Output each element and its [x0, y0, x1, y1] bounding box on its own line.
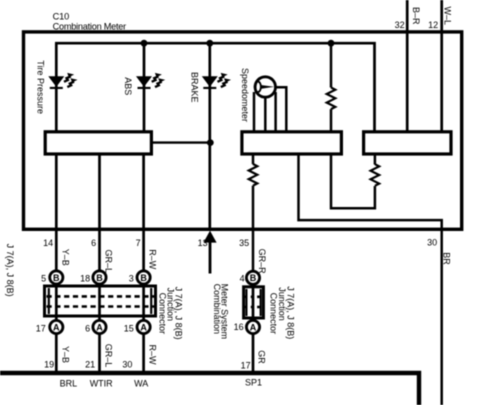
wire A6 to WTIR [98, 333, 101, 372]
connector end tick right [260, 289, 262, 316]
svg-text:21: 21 [85, 359, 95, 369]
svg-text:GR–L: GR–L [104, 344, 114, 368]
svg-text:Meter System: Meter System [220, 284, 230, 340]
svg-text:A: A [53, 322, 60, 332]
svg-text:J 7(A), J 8(B): J 7(A), J 8(B) [5, 244, 15, 297]
wire lamp module to pin 14 [55, 154, 58, 228]
connector bus bar dashed lower [245, 306, 264, 309]
svg-text:B: B [250, 273, 257, 283]
svg-text:17: 17 [36, 324, 46, 334]
wire pin 14 to junction connector [55, 228, 58, 271]
connector end tick left [48, 288, 50, 314]
wire lamp module to pin 7 [142, 154, 145, 228]
svg-text:3: 3 [129, 273, 134, 283]
svg-text:6: 6 [91, 238, 96, 248]
wire internal top feed bus [55, 43, 375, 131]
svg-text:Y–B: Y–B [60, 249, 70, 266]
meter lamp module box [45, 132, 151, 154]
svg-text:6: 6 [85, 324, 90, 334]
connector end tick right [150, 288, 152, 314]
junction connector J7(A) J8(B) left block [45, 286, 156, 316]
pin B5 terminal [50, 271, 63, 284]
svg-text:19: 19 [44, 359, 54, 369]
pin A16 terminal [246, 320, 259, 333]
speedometer module box [242, 132, 342, 154]
wire link speedo module to plate resistor [331, 155, 375, 209]
junction connector J7(A) J8(B) right block [244, 287, 264, 318]
resistor (circuit plate) [371, 164, 380, 186]
svg-text:7: 7 [136, 238, 141, 248]
svg-text:18: 18 [80, 273, 90, 283]
svg-text:B–R: B–R [411, 7, 421, 25]
svg-text:14: 14 [43, 238, 53, 248]
wire lamp module to brake branch [151, 141, 210, 143]
svg-text:BR: BR [442, 252, 452, 265]
connector bus bar dashed upper [47, 295, 155, 298]
svg-text:R–W: R–W [148, 249, 158, 270]
connector end tick left [245, 289, 247, 316]
svg-text:BRL: BRL [60, 378, 78, 388]
wire pin 12 (W-L) into meter [440, 0, 443, 132]
wire ABS lamp branch [143, 43, 146, 130]
pin B4 terminal [246, 271, 259, 284]
wire pin 32 (B-R) into meter [406, 0, 409, 132]
svg-text:32: 32 [395, 20, 405, 30]
svg-text:SP1: SP1 [245, 377, 262, 387]
wire pin 35 branch upper [252, 155, 255, 165]
svg-text:B: B [96, 273, 103, 283]
wire through connector pin14 [55, 284, 58, 320]
wire speedometer left lead [253, 92, 256, 133]
speedometer gauge [255, 77, 276, 97]
indicator lamp ABS [136, 73, 165, 89]
combination meter box C10 [24, 32, 462, 229]
resistor (pin 35 branch) [249, 164, 258, 186]
connector bus bar dashed upper [245, 295, 264, 298]
resistor (meter internal) [327, 88, 336, 110]
wire pin 35 branch lower [252, 186, 255, 271]
svg-text:16: 16 [234, 322, 244, 332]
svg-text:12: 12 [428, 20, 438, 30]
indicator lamp Tire Pressure [48, 73, 77, 89]
svg-text:Speedometer: Speedometer [240, 68, 250, 122]
svg-text:17: 17 [241, 361, 251, 371]
svg-text:GR–R: GR–R [257, 249, 267, 275]
wire pin 6 to junction connector [98, 228, 101, 271]
svg-text:35: 35 [239, 238, 249, 248]
wire speedo module to pin 30 [299, 155, 442, 405]
arrow to combination meter system [203, 231, 216, 243]
svg-text:A: A [96, 322, 103, 332]
wire A16 to SP1 [252, 333, 255, 372]
wire BRAKE lamp branch / pin 13 [208, 43, 211, 229]
svg-text:W–L: W–L [442, 7, 452, 26]
svg-text:WTIR: WTIR [90, 378, 113, 388]
wire plate resistor top lead [374, 155, 377, 165]
wire A15 to WA [142, 333, 145, 372]
svg-text:ABS: ABS [123, 77, 133, 95]
connector bus bar dashed lower [47, 305, 155, 308]
pin B18 terminal [93, 271, 106, 284]
svg-text:Connector: Connector [157, 293, 167, 335]
wire through connector pin35 [252, 284, 255, 321]
wire through connector pin7 [142, 284, 145, 320]
junction node brake branch [207, 139, 214, 146]
wire speedometer side stub [276, 87, 287, 133]
wire tire pressure lamp branch [55, 43, 58, 130]
svg-text:B: B [140, 273, 147, 283]
svg-text:GR: GR [256, 350, 266, 364]
pin A6 terminal [93, 320, 106, 333]
svg-text:B: B [53, 273, 60, 283]
svg-text:WA: WA [134, 378, 148, 388]
wire speedometer middle lead [264, 96, 267, 133]
junction node at ABS branch [141, 40, 148, 47]
svg-text:GR–L: GR–L [104, 250, 114, 274]
svg-text:C10: C10 [53, 11, 70, 21]
svg-text:5: 5 [41, 273, 46, 283]
wire A17 to BRL [55, 333, 58, 372]
pin B3 terminal [137, 271, 150, 284]
svg-text:30: 30 [427, 237, 437, 247]
svg-text:15: 15 [124, 324, 134, 334]
svg-text:4: 4 [240, 273, 245, 283]
svg-text:Connector: Connector [269, 293, 279, 335]
svg-text:BRAKE: BRAKE [189, 72, 199, 103]
pin A15 terminal [137, 320, 150, 333]
svg-text:Tire Pressure: Tire Pressure [35, 60, 45, 114]
svg-text:A: A [250, 322, 257, 332]
pin A17 terminal [50, 320, 63, 333]
wire resistor to speedo module [330, 109, 333, 133]
svg-text:Y–B: Y–B [60, 346, 70, 363]
wire speedometer right lead [274, 92, 277, 133]
svg-text:A: A [140, 322, 147, 332]
meter circuit plate box [364, 132, 451, 154]
wire lamp module to pin 6 [98, 154, 101, 228]
indicator lamp BRAKE [202, 73, 231, 89]
junction node at BRAKE branch [206, 40, 213, 47]
svg-text:R–W: R–W [148, 345, 158, 366]
wire through connector pin6 [98, 284, 101, 320]
resistor feed from top bus [330, 43, 333, 87]
system boundary bus [0, 373, 419, 405]
svg-text:30: 30 [122, 359, 132, 369]
wire pin 7 to junction connector [142, 228, 145, 271]
junction node at resistor branch [328, 40, 335, 47]
